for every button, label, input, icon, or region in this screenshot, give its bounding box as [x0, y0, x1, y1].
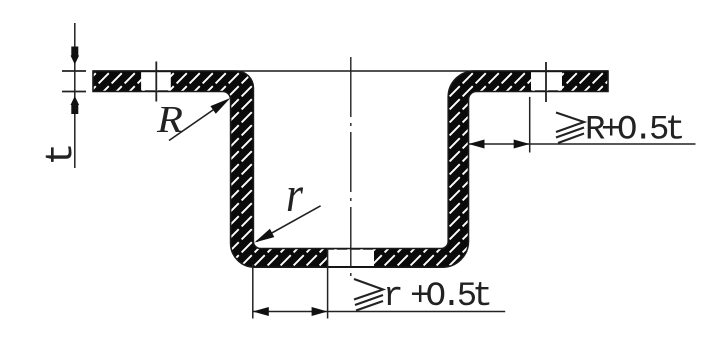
svg-text:R: R [156, 99, 183, 141]
dimension r+0.5t : right extension line [327, 249, 329, 319]
dimension r+0.5t : right arrow [312, 307, 328, 316]
svg-text:r: r [286, 166, 303, 222]
dimension r+0.5t : left extension line [252, 264, 254, 319]
white break gap in right flange [531, 72, 562, 90]
white break gap in left flange [141, 72, 171, 90]
dimension r+0.5t : left arrow [253, 307, 269, 316]
>= symbol (slanted CAD style) top [556, 113, 584, 144]
dimension R+0.5t : right arrow [514, 140, 530, 149]
white break gap in bottom [327, 250, 374, 266]
svg-text:r: r [383, 278, 403, 316]
dimension r+0.5t : dimension line [253, 311, 505, 313]
svg-text:+O.5t: +O.5t [410, 278, 489, 316]
tick through left flange gap [155, 62, 157, 102]
dimension R+0.5t : left arrow [469, 140, 485, 149]
tick through right flange gap [545, 62, 547, 102]
svg-text:t: t [40, 143, 83, 166]
dimension R+0.5t : dimension line [469, 143, 696, 145]
top surface line across cup mouth [93, 70, 608, 72]
leader r [255, 206, 321, 243]
leader R [169, 98, 230, 141]
centerline (dash-dot) [350, 57, 352, 282]
svg-text:R+O.5t: R+O.5t [585, 112, 682, 150]
dimension R+0.5t : extension line [529, 97, 531, 153]
thickness dimension line t (left) [62, 23, 86, 168]
>= symbol (slanted CAD style) bottom [354, 279, 383, 311]
part cross-section (hatched metal) [93, 71, 608, 267]
